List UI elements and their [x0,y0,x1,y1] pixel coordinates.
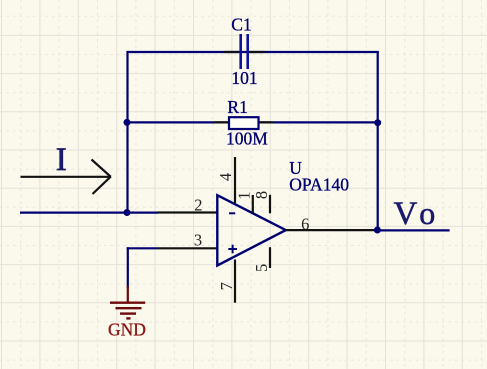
label pin 4 [216,173,235,181]
svg-text:4: 4 [216,173,235,181]
label U designator [289,158,302,178]
pin 3 line [158,247,218,249]
pin 6 line [286,229,378,231]
pin 8 line [269,195,271,214]
pin 4 line [234,157,236,203]
wire R1 feedback horizontal [127,121,378,123]
svg-text:OPA140: OPA140 [289,175,349,195]
label OPA140 [289,175,349,195]
pin 7 line [234,260,236,303]
svg-text:2: 2 [194,195,202,214]
wire output horizontal [377,229,449,231]
wire input horizontal [20,212,158,214]
svg-text:6: 6 [301,214,309,233]
svg-text:o: o [419,195,435,231]
capacitor C1 [224,34,265,69]
pin 2 line [158,211,218,213]
op-amp plus sign [228,245,237,254]
label pin 5 [252,264,271,272]
junction right R1 [374,119,381,126]
junction input node [124,209,131,216]
svg-text:8: 8 [252,191,271,199]
op-amp U triangle [217,195,285,265]
svg-text:100M: 100M [226,129,268,149]
resistor R1 pins [214,121,273,123]
junction output node [374,227,381,234]
current arrow [21,160,111,195]
svg-text:3: 3 [194,231,202,250]
op-amp minus sign [229,212,235,214]
pin 1 line [252,195,254,213]
wire right feedback vertical [377,51,379,230]
label 100M value [226,129,268,149]
label pin 1 [235,191,254,199]
junction left R1 [124,119,131,126]
label pin 8 [252,191,271,199]
wire pin3 vertical to ground [127,247,129,288]
label C1 designator [231,15,251,35]
pin 5 line [269,247,271,268]
label GND [108,320,146,340]
svg-text:5: 5 [252,264,271,272]
resistor R1 body [229,117,259,129]
label Vo output [394,195,436,232]
label pin 6 [301,214,309,233]
svg-text:C1: C1 [231,15,251,35]
svg-text:1: 1 [235,191,254,199]
svg-text:V: V [394,196,418,232]
wire top feedback horizontal [127,51,379,53]
svg-text:R1: R1 [227,97,247,117]
label I current [56,142,67,178]
svg-text:GND: GND [108,320,146,340]
label R1 designator [227,97,247,117]
label pin 3 [194,231,202,250]
label 101 value [231,68,257,88]
label pin 2 [194,195,202,214]
svg-text:101: 101 [231,68,257,88]
label pin 7 [217,282,236,290]
svg-text:7: 7 [217,282,236,290]
ground GND symbol [110,286,145,318]
wire pin3 horizontal [127,247,158,249]
svg-text:I: I [56,142,67,178]
wire left feedback vertical [126,51,128,213]
